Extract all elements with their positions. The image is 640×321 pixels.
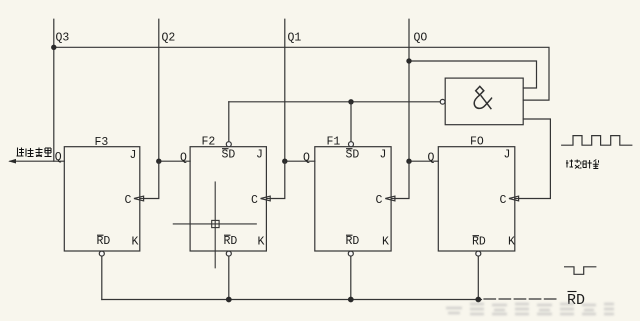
svg-text:SD: SD <box>346 149 360 162</box>
svg-text:RD: RD <box>97 235 111 248</box>
svg-text:J: J <box>130 149 137 162</box>
svg-text:SD: SD <box>222 149 236 162</box>
svg-text:Q1: Q1 <box>288 32 302 45</box>
svg-text:C: C <box>125 194 132 207</box>
svg-text:J: J <box>504 149 511 162</box>
svg-text:C: C <box>500 194 507 207</box>
svg-text:Q: Q <box>303 152 310 165</box>
node: junction Q0 x inner loop <box>406 58 411 63</box>
wire: Q3 feedback rail to AND gate right side <box>54 47 549 100</box>
overbar of F0 RD <box>473 235 480 237</box>
wire: branch down to F3 C <box>140 161 159 198</box>
bubble: F1 SD input (top) <box>349 142 354 147</box>
bubble: F3 RD input (bottom) <box>99 251 104 256</box>
svg-text:Q: Q <box>55 151 62 164</box>
arrowhead: F2 C dynamic input <box>261 196 271 201</box>
svg-text:RD: RD <box>472 236 486 249</box>
svg-text:K: K <box>132 236 139 249</box>
bubble: F2 SD input (top) <box>226 142 231 147</box>
wire: drop to F2 SD bubble <box>228 102 230 142</box>
node: junction Q3 x rail <box>51 45 56 50</box>
overbar of F3 RD <box>97 234 104 236</box>
arrowhead: F0 C dynamic input <box>509 196 519 201</box>
node: junction Q2/F2Q/F3C <box>156 159 161 164</box>
svg-text:J: J <box>380 149 387 162</box>
wire: branch down to F1 C <box>391 161 409 198</box>
svg-text:RD: RD <box>224 235 238 248</box>
svg-text:RD: RD <box>567 292 585 309</box>
bubble: F1 RD input (bottom) <box>348 251 353 256</box>
svg-text:K: K <box>382 236 389 249</box>
wire: dashed RD lead to label <box>484 298 559 300</box>
wire: Q1 output vertical <box>284 19 286 161</box>
svg-text:Q: Q <box>428 152 435 165</box>
flip-flop F2 body <box>190 147 266 251</box>
wire: NAND output to SD rail <box>229 101 440 103</box>
bubble: F0 RD input (bottom) <box>476 251 481 256</box>
label: counting clock (Chinese 计数时钟) pseudo-glyphs <box>566 160 599 169</box>
flip-flop F1 body <box>315 147 391 251</box>
svg-text:J: J <box>256 149 263 162</box>
svg-text:K: K <box>258 236 265 249</box>
wire: Q3 output vertical <box>53 19 55 161</box>
watermark: faint gray text bottom right <box>446 304 614 314</box>
flip-flop F3 body <box>64 147 140 251</box>
wire: Q0 feedback inner loop to AND gate right side <box>409 61 537 88</box>
wire: Q0 output vertical <box>408 19 410 161</box>
AND gate U1 body <box>445 78 523 125</box>
svg-text:K: K <box>508 236 515 249</box>
node: junction F1 RD x rail <box>348 297 354 303</box>
svg-text:F3: F3 <box>95 136 109 149</box>
cursor: crosshair horizontal <box>173 223 256 225</box>
node: junction SD rail x F1 drop <box>348 99 353 104</box>
overbar of F2 SD <box>222 148 229 150</box>
svg-text:Q2: Q2 <box>162 32 176 45</box>
node: junction Q1/F1Q/F2C <box>282 159 287 164</box>
wire: F2 Q to Q2 node <box>159 160 190 162</box>
wire: F0 Q to Q0 node <box>409 160 438 162</box>
wire: F2 RD drop <box>228 256 230 299</box>
overbar of F2 RD <box>224 234 231 236</box>
svg-text:F2: F2 <box>202 136 216 149</box>
svg-text:RD: RD <box>346 235 360 248</box>
wire: AND output to clock line down to F0 C input <box>515 119 551 199</box>
bubble: AND gate inverted output (left) <box>440 99 445 104</box>
waveform: RD negative pulse <box>565 267 596 275</box>
overbar of net label RD <box>568 291 577 293</box>
cursor: pick box <box>212 220 219 227</box>
wire: F1 Q to Q1 node <box>285 160 315 162</box>
svg-text:QO: QO <box>414 32 428 45</box>
wire: F0 RD drop <box>477 256 479 299</box>
wire: RD reset rail <box>102 299 482 301</box>
svg-text:Q: Q <box>180 152 187 165</box>
overbar of F1 RD <box>346 234 353 236</box>
svg-text:C: C <box>376 194 383 207</box>
wire: drop to F1 SD bubble <box>350 102 352 142</box>
svg-text:FO: FO <box>470 136 484 149</box>
wire: branch down to F2 C <box>266 161 284 198</box>
node: junction Q0/F0Q/F1C <box>406 159 411 164</box>
overbar of F1 SD <box>346 148 353 150</box>
arrowhead: F3 C dynamic input <box>134 196 144 201</box>
bubble: F2 RD input (bottom) <box>226 251 231 256</box>
waveform: counting clock <box>562 136 632 146</box>
symbol: ampersand of AND gate <box>474 86 491 108</box>
flip-flop F0 body <box>438 147 515 251</box>
svg-text:C: C <box>251 194 258 207</box>
svg-text:F1: F1 <box>327 136 341 149</box>
cursor: crosshair vertical <box>214 182 216 268</box>
arrowhead: carry output <box>8 159 16 164</box>
wire: F1 RD drop <box>350 256 352 299</box>
wire: F3 Q output / carry out <box>10 160 64 162</box>
wire: F3 RD drop <box>101 256 103 299</box>
svg-text:Q3: Q3 <box>56 32 70 45</box>
node: junction F0 RD x rail <box>475 297 481 303</box>
label: carry output (Chinese 进位输出) pseudo-glyphs <box>17 148 52 157</box>
arrowhead: F1 C dynamic input <box>385 196 395 201</box>
node: junction F2 RD x rail <box>226 297 232 303</box>
wire: Q2 output vertical <box>158 19 160 161</box>
